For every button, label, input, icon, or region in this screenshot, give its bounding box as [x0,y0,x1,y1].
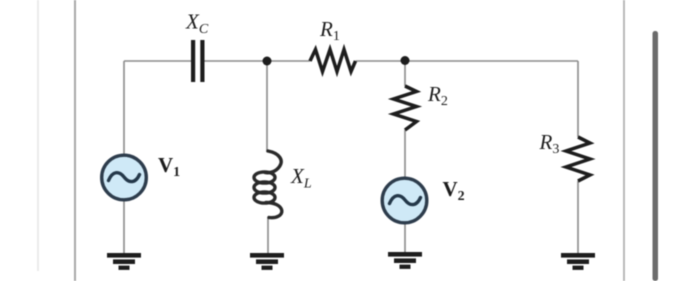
ground under V2 [388,252,422,269]
svg-text:XC: XC [185,10,209,38]
source V2 [382,178,427,223]
node B junction dot [401,56,410,65]
wire node B down to R2 [404,61,406,86]
svg-text:V1: V1 [158,153,180,180]
wire R1 right side to node B and on to right drop [356,60,579,62]
capacitor XC plates [191,40,205,82]
svg-text:R2: R2 [427,82,448,109]
svg-text:R1: R1 [319,17,340,44]
wire capacitor to node A and on to R1 [205,60,311,62]
wire V1 riser [123,61,125,154]
svg-text:XL: XL [290,164,312,192]
ground under R3 [561,253,595,270]
wire inductor bottom to ground [267,217,269,254]
resistor R1 [310,50,356,72]
wire top-left horizontal from V1 riser to capacitor [124,60,191,62]
wire right drop to R3 [577,61,579,137]
svg-text:R3: R3 [539,130,560,157]
resistor R3 [566,137,590,181]
svg-text:V2: V2 [443,177,465,204]
wire V1 bottom to ground [123,201,125,254]
resistor R2 [394,86,417,130]
ground under XL [250,253,284,270]
node A junction dot [263,57,272,66]
wire V2 bottom to ground [404,224,406,252]
inductor XL coil [254,151,282,218]
source V1 [102,155,147,200]
wire R3 bottom to ground [577,181,579,254]
wire R2 bottom to V2 top [404,130,406,177]
wire node A down to inductor [266,61,268,152]
ground under V1 [107,253,141,270]
